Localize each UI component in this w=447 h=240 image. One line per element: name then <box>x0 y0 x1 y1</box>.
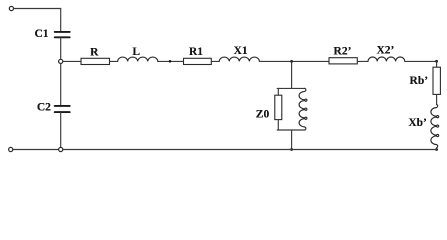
wire L to R1 <box>158 60 184 62</box>
junction dot arrow <box>169 60 172 63</box>
inductor X1 <box>219 57 259 61</box>
wire Z0 top rail <box>277 87 305 89</box>
wire Z0 branch drop <box>291 61 293 88</box>
svg-text:Z0: Z0 <box>256 109 270 121</box>
resistor R <box>81 58 110 64</box>
wire X1 to R2' <box>259 60 329 62</box>
svg-text:X2’: X2’ <box>376 45 394 57</box>
wire node to C2 <box>60 64 62 106</box>
resistor R2' <box>329 58 357 64</box>
junction dot bottom right <box>435 148 438 151</box>
junction dot bottom center <box>290 148 293 151</box>
wire Z0 top rail to box <box>277 88 279 95</box>
resistor Z0 box <box>275 95 282 119</box>
terminal T2 bottom-left <box>9 147 13 151</box>
svg-text:Rb’: Rb’ <box>410 75 429 87</box>
wire left column upper <box>60 9 62 32</box>
wire C1 to node <box>60 38 62 59</box>
wire R to L <box>110 60 118 62</box>
svg-text:R: R <box>90 46 99 58</box>
wire top rail <box>14 8 61 10</box>
capacitor C2 <box>55 106 70 112</box>
svg-text:R2’: R2’ <box>334 45 352 57</box>
inductor X2' <box>368 57 405 61</box>
svg-text:Xb’: Xb’ <box>408 117 427 129</box>
wire Z0 box to bottom rail <box>277 120 279 130</box>
svg-text:C2: C2 <box>37 102 51 114</box>
wire R2' to X2' <box>357 60 368 62</box>
resistor Rb' <box>433 67 440 94</box>
wire C2 to bottom node <box>60 113 62 148</box>
junction dot Z0 branch <box>290 60 293 63</box>
wire Z0 to bottom main rail <box>291 130 293 150</box>
terminal T1 top-left <box>9 6 13 10</box>
wire Rb' to Xb' <box>436 94 438 104</box>
svg-text:L: L <box>132 46 140 58</box>
node N2 bottom <box>59 147 63 151</box>
inductor Xb' <box>431 105 439 148</box>
capacitor C1 <box>55 32 70 37</box>
node N1 middle-left <box>59 59 63 63</box>
junction dot right corner <box>435 60 438 63</box>
wire Z0 bottom rail <box>277 129 305 131</box>
wire corner down to Rb' <box>436 61 438 67</box>
inductor Z0 coil <box>299 88 307 130</box>
wire bottom rail <box>13 149 437 151</box>
wire R1 to X1 <box>211 60 219 62</box>
svg-text:X1: X1 <box>234 45 248 57</box>
wire node to R <box>63 60 81 62</box>
svg-text:R1: R1 <box>189 46 203 58</box>
resistor R1 <box>184 58 212 64</box>
wire X2' to right corner <box>405 60 437 62</box>
inductor L <box>118 57 158 61</box>
svg-text:C1: C1 <box>34 28 48 40</box>
